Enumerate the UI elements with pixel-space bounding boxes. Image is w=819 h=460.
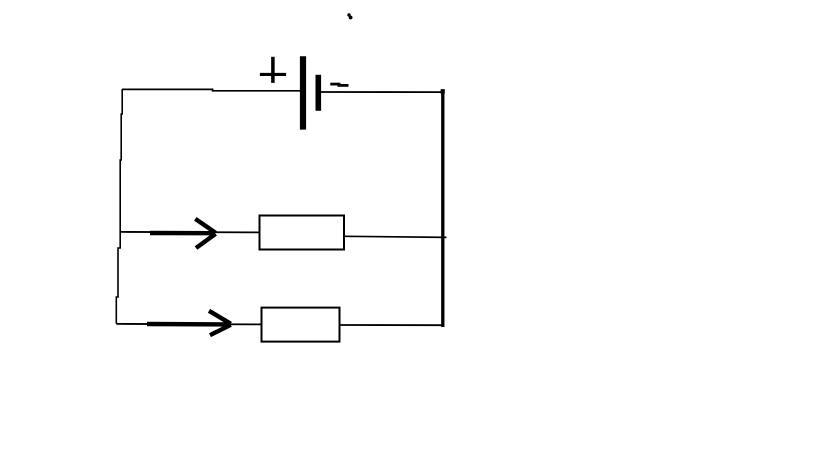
stray pen mark <box>347 13 350 16</box>
current arrow I2 (bottom branch) <box>147 311 231 335</box>
label + (battery positive) <box>260 57 286 83</box>
battery B1 negative plate <box>315 75 321 111</box>
wire bottom branch right segment to right rail <box>340 324 444 326</box>
wire right vertical rail <box>441 89 444 327</box>
wire bottom branch left segment <box>116 323 261 326</box>
resistor R1 (middle branch box) <box>260 216 345 250</box>
label - (battery negative) <box>330 84 348 85</box>
wire top-left horizontal from left rail to battery positive plate <box>122 89 300 90</box>
current arrow I1 (middle branch) <box>150 219 216 248</box>
wire middle branch right segment crossing right rail <box>344 236 447 237</box>
wire from battery negative plate to right rail <box>321 91 443 93</box>
resistor R2 (bottom branch box) <box>262 308 340 342</box>
battery B1 positive plate <box>300 56 306 129</box>
wire left vertical rail <box>116 89 122 324</box>
junction cap at top of right rail <box>441 89 445 93</box>
wire middle branch left segment <box>120 231 260 234</box>
